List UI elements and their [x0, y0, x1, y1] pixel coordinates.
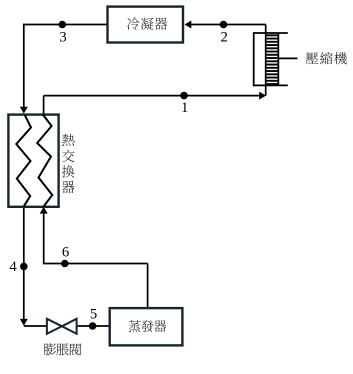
svg-text:1: 1: [181, 100, 188, 116]
svg-text:3: 3: [59, 30, 66, 46]
svg-text:5: 5: [90, 306, 97, 322]
svg-text:2: 2: [221, 29, 228, 45]
svg-text:4: 4: [9, 259, 17, 275]
svg-text:6: 6: [62, 244, 69, 260]
